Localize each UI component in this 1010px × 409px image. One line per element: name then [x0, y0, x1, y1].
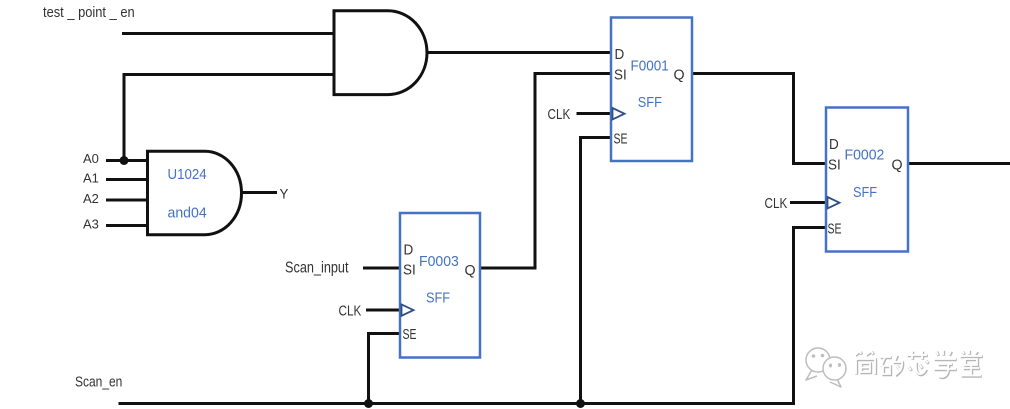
svg-text:and04: and04 [168, 205, 207, 221]
wire test_point_en to G1 upper input [122, 32, 334, 35]
junction node Scan_en to F0003 SE [364, 399, 373, 408]
svg-text:D: D [829, 136, 839, 153]
wire CLK to F0002 [790, 201, 826, 204]
svg-text:SI: SI [403, 262, 416, 279]
svg-text:Scan_en: Scan_en [75, 373, 122, 390]
watermark bubble big [806, 348, 830, 380]
svg-text:A2: A2 [83, 191, 99, 206]
and-gate G1 test point gate [334, 11, 427, 95]
wire U1024 output Y [242, 191, 277, 194]
junction node A0 branch [120, 156, 129, 165]
svg-text:A3: A3 [83, 217, 99, 232]
watermark bubble big eyes [812, 354, 825, 358]
svg-text:F0003: F0003 [419, 254, 459, 270]
wire F0003 Q to F0001 SI [480, 74, 611, 269]
svg-text:D: D [615, 46, 625, 63]
watermark text shadow layer [856, 351, 983, 378]
svg-text:SFF: SFF [853, 184, 877, 200]
svg-text:SE: SE [614, 129, 628, 146]
svg-text:Q: Q [465, 262, 476, 278]
svg-text:Q: Q [892, 157, 903, 173]
wire A1 input [106, 178, 148, 181]
svg-text:A1: A1 [83, 170, 99, 185]
svg-text:Scan_input: Scan_input [285, 259, 349, 276]
flip-flop U F0003 box [400, 213, 480, 358]
svg-text:Q: Q [674, 67, 685, 83]
svg-text:CLK: CLK [765, 194, 788, 211]
wire CLK to F0003 [366, 309, 400, 312]
svg-text:SE: SE [403, 325, 417, 342]
wire Scan_en bus [119, 402, 796, 405]
svg-text:D: D [404, 242, 414, 259]
F0002 clock triangle [828, 197, 840, 208]
wire A0 input [106, 159, 148, 162]
svg-text:SI: SI [828, 157, 841, 174]
wire Scan_en branch to F0003 SE [369, 334, 401, 404]
svg-text:test _ point _ en: test _ point _ en [43, 3, 135, 20]
watermark text white layer [855, 350, 982, 377]
F0003 clock triangle [402, 304, 414, 315]
flip-flop U F0002 box [826, 108, 908, 252]
svg-text:SE: SE [828, 219, 842, 236]
watermark bubble small eyes [829, 363, 841, 368]
wire F0001 Q to F0002 SI [692, 74, 826, 164]
wire CLK to F0001 [577, 112, 612, 115]
wire G1 output to F0001 D [427, 51, 611, 54]
svg-text:Y: Y [280, 186, 289, 201]
wire A0 branch to G1 lower input [124, 75, 334, 161]
svg-text:F0002: F0002 [845, 147, 885, 163]
wire Scan_en to F0002 SE [794, 228, 827, 406]
svg-text:CLK: CLK [339, 302, 362, 319]
wire F0002 Q output [908, 162, 1010, 165]
wire A2 input [106, 199, 148, 202]
wire Scan_input to F0003 SI [363, 267, 400, 270]
svg-text:A0: A0 [83, 151, 99, 166]
and-gate U1024 and04 [148, 151, 242, 234]
svg-text:U1024: U1024 [168, 166, 207, 183]
svg-text:SI: SI [614, 67, 627, 84]
F0001 clock triangle [613, 108, 625, 119]
svg-text:CLK: CLK [548, 106, 571, 123]
svg-text:F0001: F0001 [631, 57, 669, 74]
svg-text:SFF: SFF [638, 94, 662, 110]
junction node Scan_en to F0001 SE [576, 399, 585, 408]
wire Scan_en branch to F0001 SE [581, 138, 612, 404]
flip-flop U F0001 box [611, 18, 692, 162]
svg-text:SFF: SFF [426, 290, 450, 306]
watermark bubble small [823, 357, 846, 387]
wire A3 input [106, 224, 148, 227]
